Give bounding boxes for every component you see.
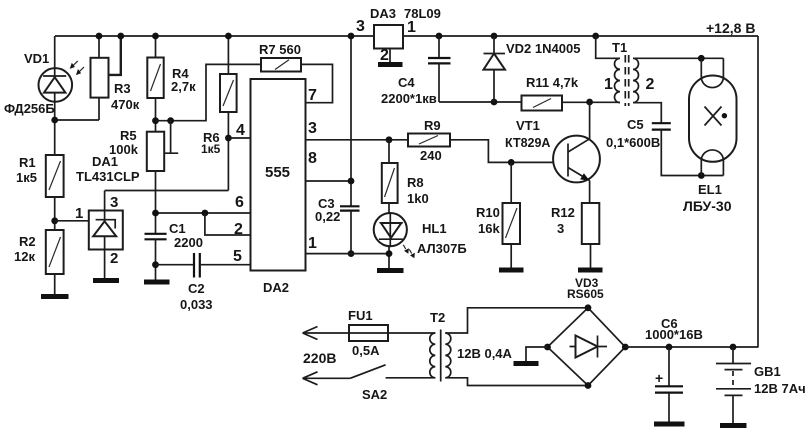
node R5 wiper tie bbox=[167, 117, 174, 124]
node R1/R2/DA1 junction bbox=[51, 217, 58, 224]
wire R5 bottom stem to C1 bbox=[155, 171, 157, 234]
wire top rail left segment bbox=[55, 35, 374, 37]
svg-text:1: 1 bbox=[604, 76, 613, 93]
mains input arrow top bbox=[303, 327, 349, 340]
svg-text:ЛБУ-30: ЛБУ-30 bbox=[683, 198, 732, 214]
pin 2 stem of DA1 to ground bbox=[104, 250, 106, 279]
capacitor C5 bbox=[652, 123, 724, 175]
wire R1 bottom stem bbox=[54, 197, 56, 230]
node VD2 bottom junction bbox=[491, 99, 498, 106]
light arrows into VD1 bbox=[73, 61, 84, 72]
node VD2 top on rail bbox=[491, 33, 498, 40]
node GB1 tap bbox=[730, 344, 737, 351]
svg-text:C5: C5 bbox=[627, 117, 644, 132]
svg-text:R9: R9 bbox=[424, 118, 441, 133]
wire C4 bottom stem bbox=[438, 63, 440, 102]
pin 3 stem of DA1 bbox=[104, 191, 106, 211]
wire C1 bottom stem bbox=[155, 239, 157, 280]
resistor R2 bbox=[46, 230, 64, 295]
photodiode VD1 bbox=[39, 36, 85, 102]
ground under C1 bbox=[144, 280, 170, 285]
svg-text:T1: T1 bbox=[612, 40, 627, 55]
ground at bridge bbox=[514, 361, 539, 366]
node lamp top left leg bbox=[698, 55, 705, 62]
svg-text:2200*1кв: 2200*1кв bbox=[381, 91, 437, 106]
svg-text:2: 2 bbox=[110, 250, 118, 267]
capacitor C6 bbox=[655, 347, 683, 422]
svg-text:2: 2 bbox=[234, 221, 243, 238]
svg-text:SA2: SA2 bbox=[362, 387, 387, 402]
shunt regulator DA1 TL431CLP bbox=[89, 211, 123, 250]
node junction VD1/R3/R1 bbox=[51, 117, 58, 124]
node bridge bottom vertex bbox=[585, 382, 592, 389]
svg-text:240: 240 bbox=[420, 148, 442, 163]
wire pin 8 link bbox=[306, 180, 352, 182]
wire R8 top stem bbox=[388, 140, 390, 163]
capacitor C4 bbox=[428, 36, 451, 102]
wire VD1 top stem bbox=[54, 36, 56, 68]
wire node to DA1 pin 1 bbox=[55, 220, 89, 222]
svg-text:R3: R3 bbox=[114, 81, 131, 96]
capacitor C2 bbox=[194, 253, 200, 278]
resistor R8 bbox=[382, 140, 398, 215]
wire T2 secondary top to bridge bbox=[445, 308, 588, 333]
node pin6/pin2 branch bbox=[202, 210, 209, 217]
wire T2 secondary bottom to bridge bbox=[445, 378, 588, 386]
svg-text:T2: T2 bbox=[430, 310, 445, 325]
node R6 top on rail bbox=[225, 33, 232, 40]
wire R12 bottom stem bbox=[590, 244, 592, 268]
wire emitter stem bbox=[589, 181, 591, 204]
wire R6 top stem bbox=[227, 36, 229, 74]
wire bridge output to right bus bbox=[625, 346, 758, 348]
ground bar under R12 bbox=[578, 268, 603, 273]
node pin8 riser tap on rail bbox=[348, 33, 355, 40]
svg-text:5: 5 bbox=[233, 248, 242, 265]
ground under R2 bbox=[41, 294, 69, 299]
svg-text:3: 3 bbox=[356, 18, 365, 35]
node R3 wiper on rail bbox=[117, 33, 124, 40]
svg-text:+: + bbox=[655, 370, 663, 386]
node R4/R5 junction bbox=[152, 117, 159, 124]
resistor R7 bbox=[261, 58, 301, 72]
svg-text:TL431CLP: TL431CLP bbox=[76, 169, 140, 184]
wire 12V raw net C4 to R11 bbox=[439, 101, 522, 103]
svg-text:1: 1 bbox=[407, 19, 416, 36]
svg-text:2: 2 bbox=[646, 76, 655, 93]
node C4 tap on rail bbox=[436, 33, 443, 40]
svg-text:VD2 1N4005: VD2 1N4005 bbox=[506, 41, 580, 56]
svg-text:1: 1 bbox=[75, 205, 83, 222]
LED HL1 bbox=[374, 213, 415, 258]
lamp X mark bbox=[705, 107, 722, 126]
svg-text:C1: C1 bbox=[169, 221, 186, 236]
svg-text:C2: C2 bbox=[188, 281, 205, 296]
potentiometer R3 bbox=[91, 36, 121, 120]
svg-text:1: 1 bbox=[308, 235, 317, 252]
svg-text:7: 7 bbox=[308, 87, 317, 104]
svg-text:R8: R8 bbox=[407, 175, 424, 190]
wire C4 top stem bbox=[438, 36, 440, 58]
resistor R11 bbox=[522, 96, 563, 111]
svg-text:0,22: 0,22 bbox=[315, 209, 340, 224]
node T1 feed on rail bbox=[592, 33, 599, 40]
node bridge top vertex bbox=[585, 304, 592, 311]
bridge rectifier VD3 RS605 bbox=[548, 308, 626, 386]
svg-text:1к5: 1к5 bbox=[201, 142, 221, 156]
wire R8 bottom stem bbox=[388, 203, 390, 215]
wire R7 right to pin 7 bbox=[301, 64, 333, 102]
svg-text:8: 8 bbox=[308, 150, 317, 167]
wire pin 1 to ground net bbox=[306, 253, 390, 255]
svg-text:R2: R2 bbox=[19, 234, 36, 249]
node C1 bottom / pin5 net bbox=[152, 261, 159, 268]
wire R10 bottom stem bbox=[510, 244, 512, 268]
svg-text:R5: R5 bbox=[120, 128, 137, 143]
svg-text:2: 2 bbox=[380, 47, 389, 64]
svg-text:100k: 100k bbox=[109, 142, 139, 157]
wire C5 bottom to lamp bottom net bbox=[661, 130, 723, 176]
ground under C6 bbox=[654, 422, 685, 427]
wire R3 top stem bbox=[98, 36, 100, 58]
ground under R10 bbox=[499, 268, 524, 273]
wire R3 bottom stem bbox=[98, 98, 100, 120]
wire pin3 net jog to VT1 base bbox=[450, 140, 566, 163]
switch SA2 bbox=[350, 365, 385, 379]
svg-text:R11 4,7k: R11 4,7k bbox=[526, 75, 579, 90]
wire pin 5 right of C2 bbox=[200, 264, 251, 266]
svg-text:1k0: 1k0 bbox=[407, 191, 429, 206]
svg-text:3: 3 bbox=[557, 221, 564, 236]
svg-text:12к: 12к bbox=[14, 249, 35, 264]
svg-text:КТ829А: КТ829А bbox=[505, 136, 550, 150]
ground under DA1 bbox=[93, 278, 119, 283]
potentiometer R5 bbox=[147, 121, 178, 234]
wire VD1 bottom stem to node bbox=[54, 102, 56, 155]
wire R5 wiper bbox=[164, 121, 178, 154]
resistor R6 bbox=[220, 36, 237, 191]
resistor R9 bbox=[408, 134, 450, 147]
svg-text:470к: 470к bbox=[111, 97, 140, 112]
wire R6 bottom stem bbox=[227, 112, 229, 191]
wire R10 top stem bbox=[510, 162, 512, 203]
svg-text:220В: 220В bbox=[303, 350, 336, 366]
svg-text:0,1*600В: 0,1*600В bbox=[606, 135, 660, 150]
node C6 tap bbox=[666, 344, 673, 351]
timer DA2 555 bbox=[251, 79, 306, 271]
wire R4 bottom stem bbox=[155, 98, 157, 132]
mains input arrow bottom bbox=[303, 372, 351, 385]
transformer T2 bbox=[430, 330, 451, 382]
wire DA3 pin2 stem bbox=[389, 49, 391, 63]
svg-text:0,033: 0,033 bbox=[180, 297, 213, 312]
svg-text:R1: R1 bbox=[19, 155, 36, 170]
svg-text:3: 3 bbox=[110, 194, 118, 211]
wire rail to T1 winding1 top bbox=[596, 36, 620, 58]
wire GB1 bottom stem bbox=[732, 395, 734, 423]
filament top bbox=[701, 77, 723, 88]
svg-text:VD1: VD1 bbox=[24, 51, 49, 66]
svg-text:4: 4 bbox=[236, 122, 245, 139]
wire C6 top stem bbox=[668, 347, 670, 386]
fuse FU1 bbox=[349, 325, 388, 341]
lamp EL1 bbox=[689, 58, 737, 175]
svg-text:1к5: 1к5 bbox=[16, 170, 37, 185]
node R6/pin4 junction bbox=[225, 135, 232, 142]
resistor R10 bbox=[503, 162, 521, 267]
svg-text:1000*16В: 1000*16В bbox=[645, 327, 703, 342]
wire HL1 bottom to ground net bbox=[388, 245, 390, 268]
svg-text:C4: C4 bbox=[398, 75, 415, 90]
node bridge left vertex bbox=[544, 344, 551, 351]
svg-text:HL1: HL1 bbox=[422, 221, 447, 236]
wire collector stem bbox=[589, 102, 591, 140]
wire switch to T2 primary bottom bbox=[386, 377, 436, 379]
transistor VT1 KT829A bbox=[553, 102, 600, 203]
node R9/R8 junction bbox=[386, 136, 393, 143]
svg-text:16k: 16k bbox=[478, 221, 500, 236]
wire R4 top stem bbox=[155, 36, 157, 58]
node HL1/pin1 junction bbox=[386, 250, 393, 257]
node R4 top on rail bbox=[152, 33, 159, 40]
wire pin 5 left of C2 bbox=[156, 264, 195, 266]
wire pin 2 jog bbox=[205, 213, 251, 235]
node lamp bottom left leg bbox=[698, 172, 705, 179]
wire C6 bottom stem bbox=[668, 393, 670, 422]
wire pin 8 riser from rail bbox=[350, 36, 352, 206]
wire right-edge vertical bus down to battery net bbox=[757, 36, 759, 348]
svg-text:DA2: DA2 bbox=[263, 280, 289, 295]
svg-text:ФД256Б: ФД256Б bbox=[4, 101, 55, 116]
wire R11 right to T1 node bbox=[562, 101, 620, 103]
wire C3 bottom stem bbox=[350, 211, 352, 254]
svg-text:EL1: EL1 bbox=[698, 182, 722, 197]
svg-text:R12: R12 bbox=[551, 205, 575, 220]
ground under GB1 bbox=[720, 423, 747, 428]
svg-text:GB1: GB1 bbox=[754, 364, 781, 379]
svg-text:R10: R10 bbox=[476, 205, 500, 220]
node C1 top junction bbox=[152, 210, 159, 217]
wire T1 winding2 bottom to C5 bbox=[633, 103, 661, 124]
svg-text:АЛ307Б: АЛ307Б bbox=[417, 241, 467, 256]
wire R6 bottom to DA1 pin 3 bbox=[105, 190, 229, 192]
svg-text:3: 3 bbox=[308, 120, 317, 137]
wire pin 4 link bbox=[228, 137, 250, 139]
wire GB1 top stem bbox=[732, 347, 734, 363]
resistor R12 bbox=[582, 203, 600, 268]
regulator DA3 78L09 bbox=[374, 25, 403, 63]
resistor R4 bbox=[147, 36, 163, 132]
wire arrow to switch bbox=[303, 377, 351, 379]
capacitor C3 bbox=[340, 206, 360, 253]
resistor R1 bbox=[46, 155, 64, 230]
wire VD1/R3 bottom link bbox=[55, 119, 99, 121]
wire arrow to fuse bbox=[303, 332, 349, 334]
wire lamp bottom legs bbox=[701, 161, 723, 176]
svg-text:VT1: VT1 bbox=[516, 118, 540, 133]
svg-text:R7 560: R7 560 bbox=[259, 42, 301, 57]
node R3 top on rail bbox=[96, 33, 103, 40]
svg-text:12В 0,4А: 12В 0,4А bbox=[457, 346, 513, 361]
svg-text:555: 555 bbox=[265, 164, 290, 181]
transformer T1 bbox=[615, 55, 639, 106]
filament bottom bbox=[701, 150, 723, 161]
wire pin 3 output bbox=[306, 139, 409, 141]
wire pin 6 link bbox=[156, 212, 251, 214]
diode VD2 1N4005 bbox=[484, 36, 506, 102]
wire top rail right segment bbox=[403, 35, 758, 37]
bridge diode symbol bbox=[570, 346, 608, 348]
capacitor C1 bbox=[145, 234, 167, 280]
svg-text:6: 6 bbox=[235, 194, 244, 211]
node +12V rail: top horizontal bus y=36 bbox=[55, 36, 758, 348]
svg-text:FU1: FU1 bbox=[348, 308, 373, 323]
ground under HL1 bbox=[377, 268, 404, 273]
wire R2 bottom stem bbox=[54, 274, 56, 295]
svg-text:2200: 2200 bbox=[174, 235, 203, 250]
light arrows from HL1 bbox=[403, 245, 411, 254]
svg-text:+12,8 В: +12,8 В bbox=[706, 20, 755, 36]
battery GB1 bbox=[716, 347, 751, 423]
node bridge right vertex bbox=[622, 344, 629, 351]
node R10 tap on base wire bbox=[508, 159, 515, 166]
wire lamp top legs bbox=[701, 58, 723, 77]
wire bridge left vertex to ground bbox=[526, 347, 548, 361]
wire R3 wiper to rail bbox=[109, 36, 121, 75]
node T1-1 bottom / collector junction bbox=[586, 99, 593, 106]
node pin8/C3 junction bbox=[348, 178, 355, 185]
svg-text:2,7к: 2,7к bbox=[171, 79, 196, 94]
ground under DA3 bbox=[378, 62, 403, 67]
svg-text:0,5А: 0,5А bbox=[352, 343, 380, 358]
wire fuse to T2 primary bbox=[388, 332, 435, 334]
wire T1 winding2 top to lamp net bbox=[633, 57, 723, 59]
svg-text:RS605: RS605 bbox=[567, 287, 604, 301]
svg-text:DA3: DA3 bbox=[370, 6, 396, 21]
wire R4/R5 node to R7 feed bbox=[156, 64, 262, 120]
node C3 bottom on pin1 wire bbox=[348, 250, 355, 257]
svg-text:12В 7Ач: 12В 7Ач bbox=[754, 381, 806, 396]
